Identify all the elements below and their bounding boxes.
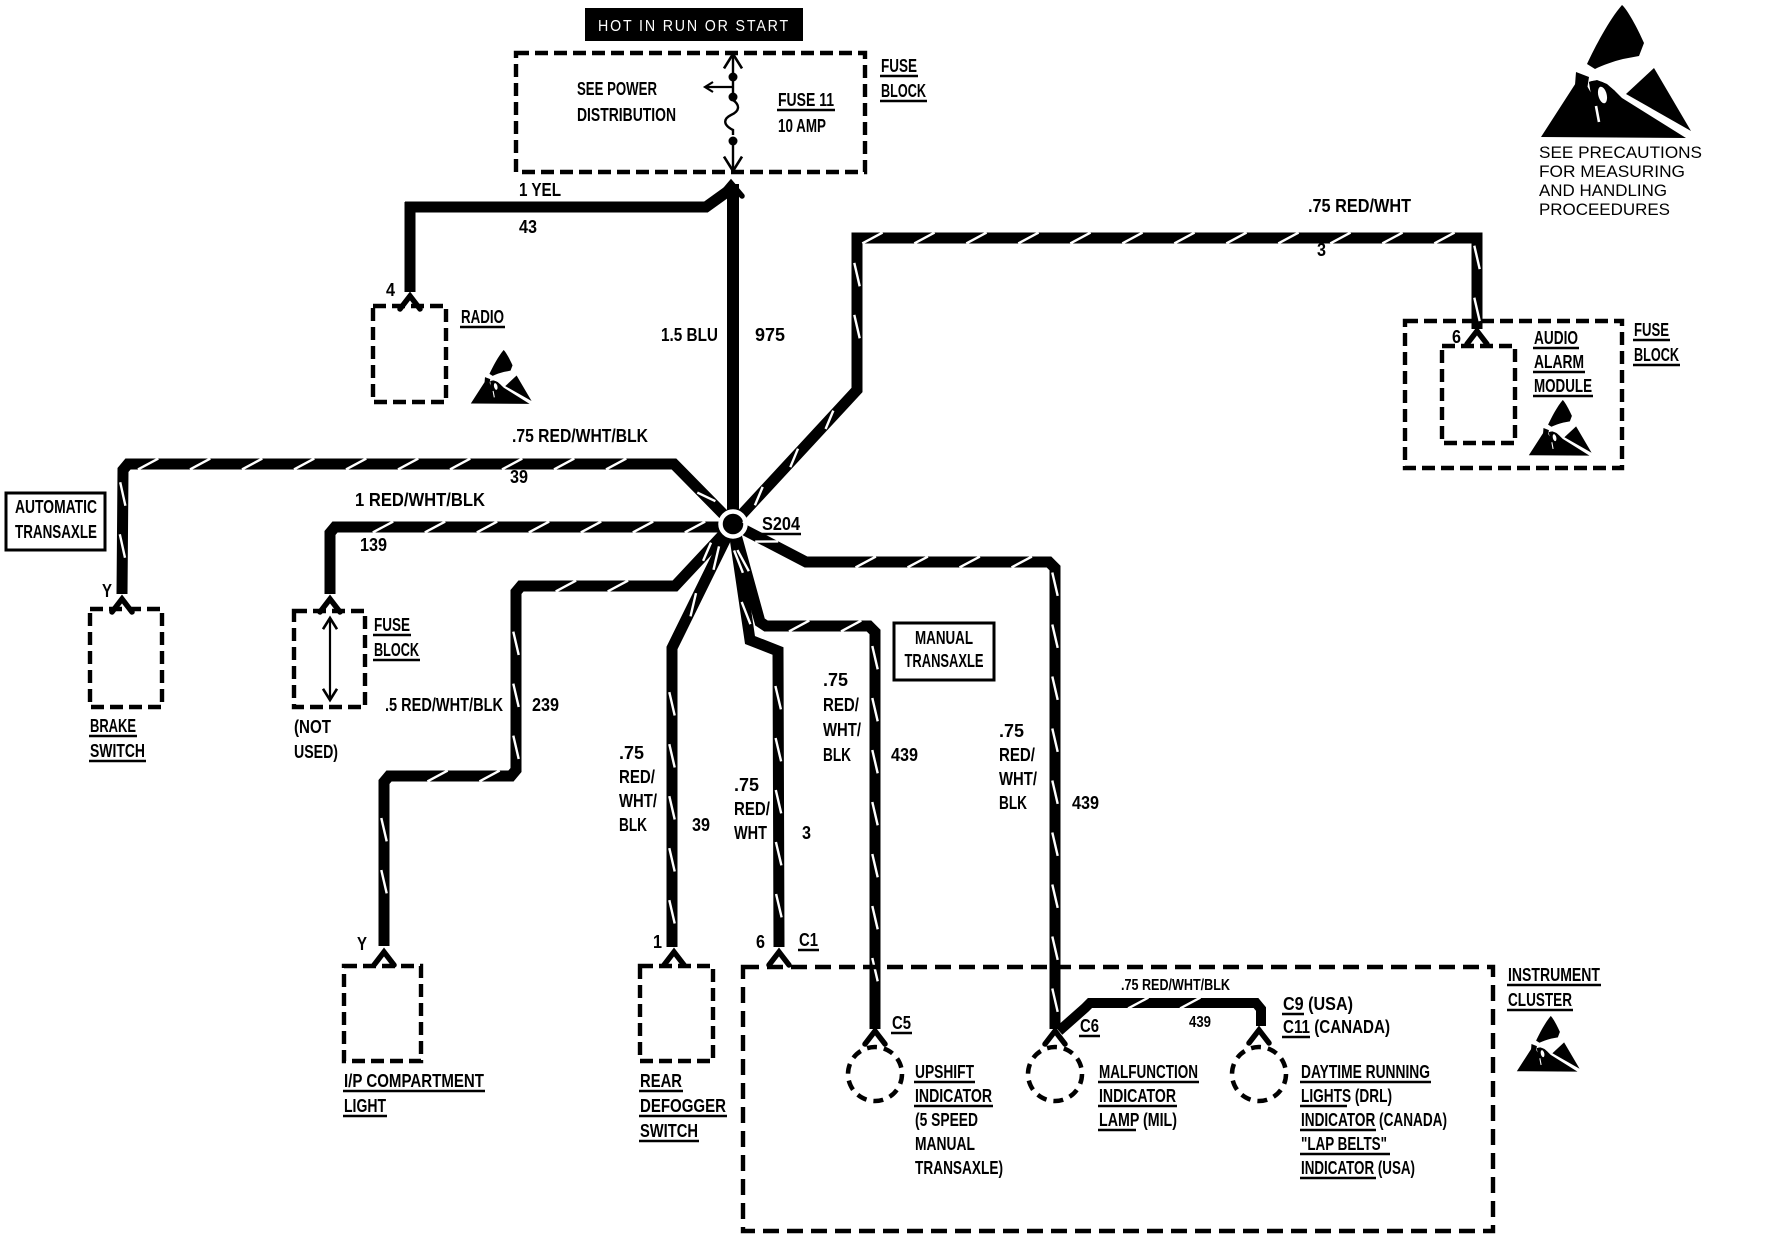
svg-text:INDICATOR (CANADA): INDICATOR (CANADA) xyxy=(1301,1110,1447,1130)
svg-text:WHT/: WHT/ xyxy=(999,769,1037,789)
svg-text:C6: C6 xyxy=(1080,1016,1099,1036)
svg-text:.75: .75 xyxy=(823,670,848,690)
svg-text:INDICATOR: INDICATOR xyxy=(1099,1086,1176,1106)
svg-text:AND HANDLING: AND HANDLING xyxy=(1539,181,1667,200)
svg-text:Y: Y xyxy=(357,934,367,954)
svg-text:RADIO: RADIO xyxy=(461,307,504,327)
svg-text:BLOCK: BLOCK xyxy=(374,640,419,660)
svg-text:BLOCK: BLOCK xyxy=(881,81,926,101)
svg-text:BLK: BLK xyxy=(823,745,851,765)
svg-text:TRANSAXLE: TRANSAXLE xyxy=(905,651,984,671)
svg-text:BLK: BLK xyxy=(619,815,647,835)
svg-text:1 RED/WHT/BLK: 1 RED/WHT/BLK xyxy=(355,490,485,510)
svg-text:BRAKE: BRAKE xyxy=(90,716,136,736)
svg-text:SEE POWER: SEE POWER xyxy=(577,79,657,99)
svg-text:.75 RED/WHT/BLK: .75 RED/WHT/BLK xyxy=(512,426,648,446)
svg-text:DEFOGGER: DEFOGGER xyxy=(640,1096,726,1116)
svg-text:RED/: RED/ xyxy=(999,745,1035,765)
svg-text:C1: C1 xyxy=(799,930,818,950)
svg-text:I/P COMPARTMENT: I/P COMPARTMENT xyxy=(344,1071,484,1091)
svg-text:FUSE: FUSE xyxy=(1634,320,1669,340)
svg-text:(NOT: (NOT xyxy=(294,717,331,737)
svg-text:Y: Y xyxy=(102,581,112,601)
svg-text:MODULE: MODULE xyxy=(1534,376,1592,396)
svg-text:FUSE: FUSE xyxy=(881,56,917,76)
svg-text:RED/: RED/ xyxy=(734,799,770,819)
svg-text:DISTRIBUTION: DISTRIBUTION xyxy=(577,105,676,125)
svg-text:LAMP (MIL): LAMP (MIL) xyxy=(1099,1110,1177,1130)
svg-text:DAYTIME RUNNING: DAYTIME RUNNING xyxy=(1301,1062,1430,1082)
svg-text:1: 1 xyxy=(653,932,662,952)
svg-text:C11 (CANADA): C11 (CANADA) xyxy=(1283,1017,1390,1037)
svg-text:.75: .75 xyxy=(734,775,759,795)
svg-text:.75 RED/WHT: .75 RED/WHT xyxy=(1308,196,1411,216)
svg-text:LIGHT: LIGHT xyxy=(344,1096,386,1116)
svg-text:INDICATOR: INDICATOR xyxy=(915,1086,992,1106)
svg-text:WHT/: WHT/ xyxy=(823,720,861,740)
svg-text:MALFUNCTION: MALFUNCTION xyxy=(1099,1062,1198,1082)
svg-text:3: 3 xyxy=(802,823,811,843)
svg-text:139: 139 xyxy=(360,535,387,555)
svg-text:BLOCK: BLOCK xyxy=(1634,345,1679,365)
svg-text:.75: .75 xyxy=(999,721,1024,741)
svg-text:.75 RED/WHT/BLK: .75 RED/WHT/BLK xyxy=(1121,977,1230,994)
svg-text:INSTRUMENT: INSTRUMENT xyxy=(1508,965,1600,985)
svg-text:FOR MEASURING: FOR MEASURING xyxy=(1539,162,1685,181)
svg-text:CLUSTER: CLUSTER xyxy=(1508,990,1572,1010)
svg-text:MANUAL: MANUAL xyxy=(915,628,973,648)
svg-text:SWITCH: SWITCH xyxy=(90,741,145,761)
svg-text:39: 39 xyxy=(510,467,528,487)
svg-text:10 AMP: 10 AMP xyxy=(778,116,826,136)
svg-text:1.5 BLU: 1.5 BLU xyxy=(661,325,718,345)
svg-text:.5 RED/WHT/BLK: .5 RED/WHT/BLK xyxy=(385,695,503,715)
svg-text:RED/: RED/ xyxy=(619,767,655,787)
svg-text:AUTOMATIC: AUTOMATIC xyxy=(15,497,97,517)
svg-text:BLK: BLK xyxy=(999,793,1027,813)
svg-text:439: 439 xyxy=(1072,793,1099,813)
svg-text:LIGHTS (DRL): LIGHTS (DRL) xyxy=(1301,1086,1392,1106)
svg-text:WHT/: WHT/ xyxy=(619,791,657,811)
svg-text:"LAP BELTS": "LAP BELTS" xyxy=(1301,1134,1387,1154)
svg-text:SWITCH: SWITCH xyxy=(640,1121,698,1141)
svg-text:UPSHIFT: UPSHIFT xyxy=(915,1062,974,1082)
svg-text:C9 (USA): C9 (USA) xyxy=(1283,994,1353,1014)
svg-text:43: 43 xyxy=(519,217,537,237)
svg-text:ALARM: ALARM xyxy=(1534,352,1584,372)
svg-text:439: 439 xyxy=(891,745,918,765)
svg-text:USED): USED) xyxy=(294,742,338,762)
svg-text:39: 39 xyxy=(692,815,710,835)
svg-text:4: 4 xyxy=(386,280,395,300)
svg-text:INDICATOR (USA): INDICATOR (USA) xyxy=(1301,1158,1415,1178)
svg-text:6: 6 xyxy=(756,932,765,952)
svg-text:WHT: WHT xyxy=(734,823,767,843)
svg-text:TRANSAXLE): TRANSAXLE) xyxy=(915,1158,1003,1178)
svg-text:3: 3 xyxy=(1317,240,1326,260)
svg-text:975: 975 xyxy=(755,325,785,345)
svg-text:RED/: RED/ xyxy=(823,695,859,715)
svg-text:S204: S204 xyxy=(762,514,800,534)
svg-text:.75: .75 xyxy=(619,743,644,763)
svg-text:HOT IN RUN OR START: HOT IN RUN OR START xyxy=(598,18,790,35)
svg-text:FUSE 11: FUSE 11 xyxy=(778,90,834,110)
svg-text:AUDIO: AUDIO xyxy=(1534,328,1578,348)
svg-text:1 YEL: 1 YEL xyxy=(519,180,561,200)
svg-text:239: 239 xyxy=(532,695,559,715)
svg-text:C5: C5 xyxy=(892,1013,911,1033)
svg-text:REAR: REAR xyxy=(640,1071,682,1091)
svg-text:439: 439 xyxy=(1189,1014,1211,1031)
svg-text:PROCEEDURES: PROCEEDURES xyxy=(1539,200,1670,219)
svg-text:TRANSAXLE: TRANSAXLE xyxy=(15,522,97,542)
svg-text:(5 SPEED: (5 SPEED xyxy=(915,1110,978,1130)
svg-text:MANUAL: MANUAL xyxy=(915,1134,975,1154)
svg-text:FUSE: FUSE xyxy=(374,615,410,635)
svg-text:SEE PRECAUTIONS: SEE PRECAUTIONS xyxy=(1539,143,1702,162)
